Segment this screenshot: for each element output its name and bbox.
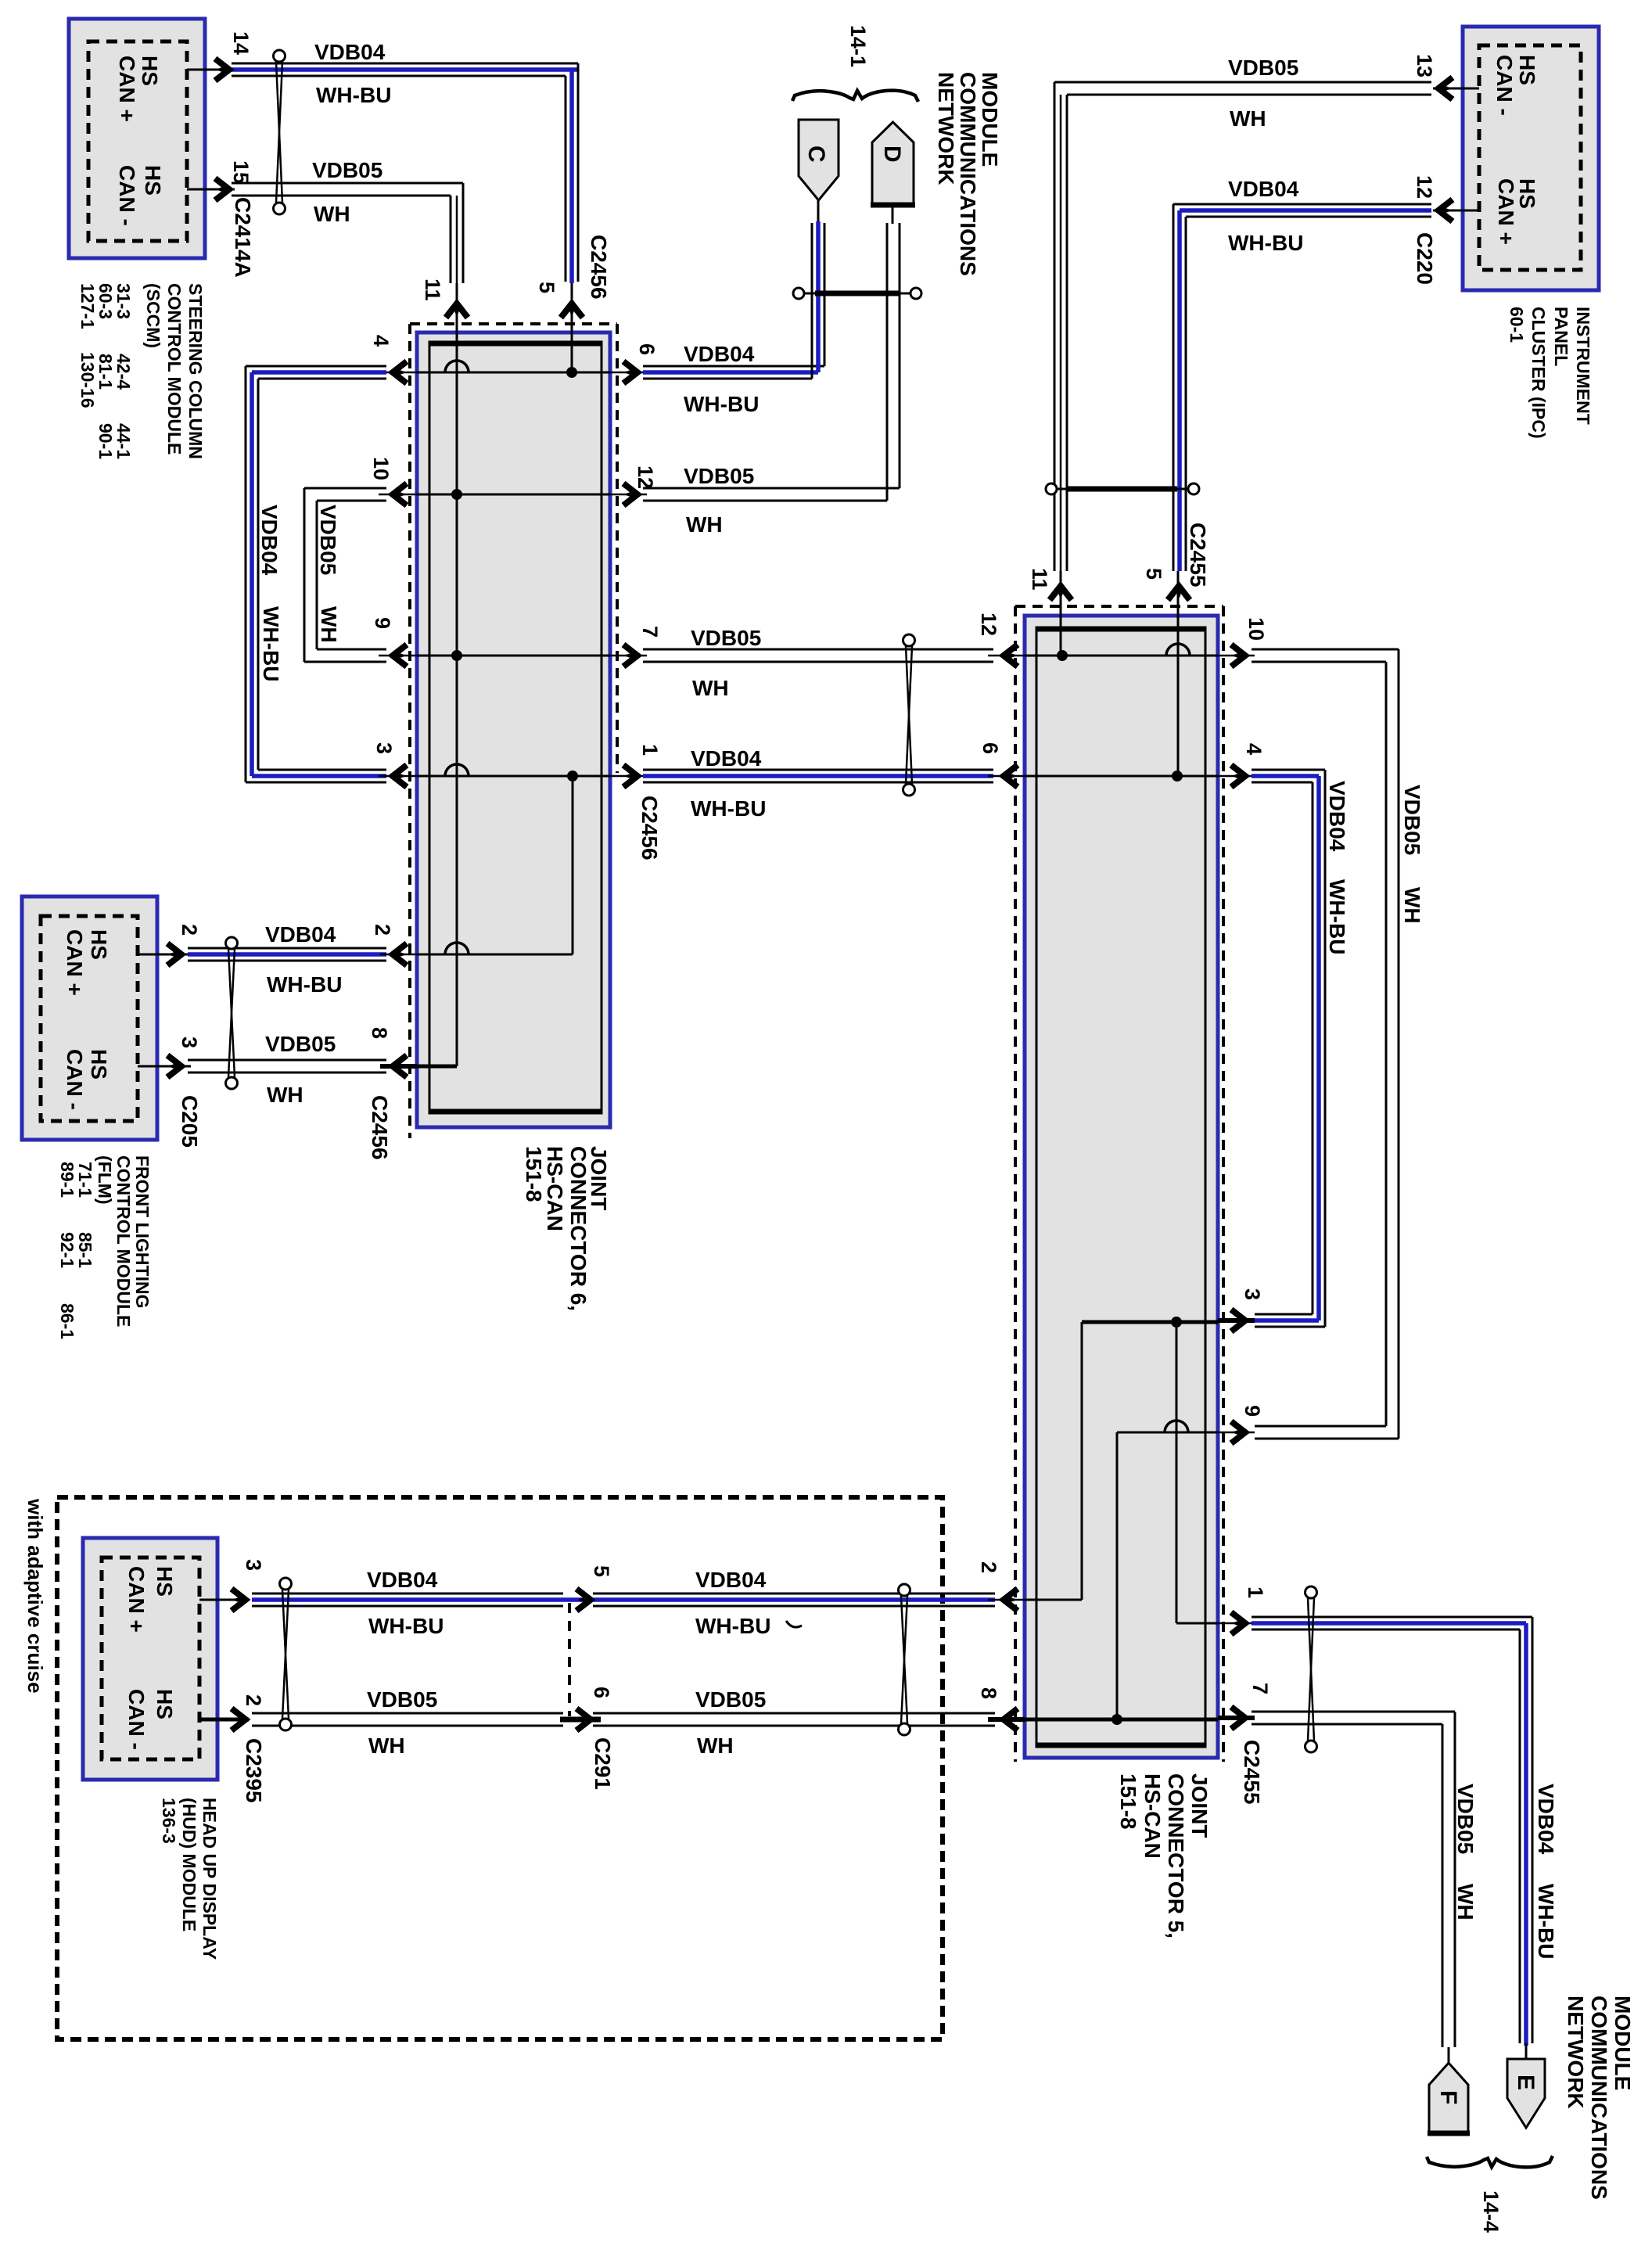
svg-text:127-1: 127-1 xyxy=(77,283,98,329)
svg-text:HS: HS xyxy=(87,929,111,960)
svg-text:(FLM): (FLM) xyxy=(95,1155,115,1205)
svg-text:C2456: C2456 xyxy=(587,235,611,300)
svg-text:3: 3 xyxy=(372,742,396,754)
svg-text:WH: WH xyxy=(697,1734,734,1758)
svg-text:JOINT: JOINT xyxy=(1187,1773,1212,1838)
svg-text:14-4: 14-4 xyxy=(1479,2190,1503,2233)
svg-text:15: 15 xyxy=(229,160,253,184)
svg-text:86-1: 86-1 xyxy=(57,1303,77,1339)
svg-text:VDB05: VDB05 xyxy=(691,626,761,650)
svg-text:3: 3 xyxy=(1241,1288,1264,1300)
svg-text:WH: WH xyxy=(368,1734,405,1758)
svg-text:VDB05: VDB05 xyxy=(367,1687,437,1712)
svg-text:WH: WH xyxy=(692,676,729,700)
svg-text:(HUD) MODULE: (HUD) MODULE xyxy=(179,1798,199,1931)
svg-text:VDB04: VDB04 xyxy=(265,922,336,947)
svg-text:HS: HS xyxy=(141,165,165,196)
svg-text:VDB05: VDB05 xyxy=(316,505,340,575)
svg-text:HEAD UP DISPLAY: HEAD UP DISPLAY xyxy=(199,1798,220,1960)
svg-text:D: D xyxy=(879,146,905,163)
svg-text:VDB05: VDB05 xyxy=(312,158,382,182)
svg-text:MODULE: MODULE xyxy=(1611,1996,1635,2090)
svg-text:4: 4 xyxy=(1242,743,1266,755)
svg-text:1: 1 xyxy=(638,744,662,756)
svg-text:INSTRUMENT: INSTRUMENT xyxy=(1573,307,1593,425)
svg-text:9: 9 xyxy=(1241,1405,1264,1417)
svg-text:6: 6 xyxy=(635,343,659,355)
svg-text:VDB04: VDB04 xyxy=(1228,177,1299,201)
svg-text:10: 10 xyxy=(1244,617,1268,641)
svg-text:8: 8 xyxy=(977,1687,1000,1699)
svg-text:VDB04: VDB04 xyxy=(684,342,755,366)
svg-text:6: 6 xyxy=(590,1687,613,1698)
svg-text:C2395: C2395 xyxy=(242,1738,266,1803)
svg-text:11: 11 xyxy=(1028,568,1051,591)
svg-text:VDB04: VDB04 xyxy=(257,505,282,576)
svg-text:136-3: 136-3 xyxy=(159,1798,179,1844)
svg-text:60-1: 60-1 xyxy=(1507,307,1527,343)
svg-text:14-1: 14-1 xyxy=(846,25,870,67)
svg-text:FRONT LIGHTING: FRONT LIGHTING xyxy=(132,1155,153,1308)
svg-text:HS: HS xyxy=(153,1689,177,1719)
svg-text:C: C xyxy=(803,146,829,163)
svg-text:WH: WH xyxy=(1400,887,1424,924)
svg-text:9: 9 xyxy=(371,617,394,629)
svg-text:5: 5 xyxy=(590,1565,613,1577)
svg-text:12: 12 xyxy=(634,465,657,489)
svg-text:HS: HS xyxy=(1515,55,1539,85)
svg-text:7: 7 xyxy=(1248,1683,1272,1694)
svg-text:COMMUNICATIONS: COMMUNICATIONS xyxy=(956,72,980,276)
svg-text:CAN -: CAN - xyxy=(1492,55,1517,116)
svg-text:CAN +: CAN + xyxy=(63,929,87,996)
svg-text:C2456: C2456 xyxy=(368,1095,392,1160)
svg-text:HS: HS xyxy=(138,56,162,86)
svg-text:VDB05: VDB05 xyxy=(695,1687,766,1712)
svg-text:92-1: 92-1 xyxy=(57,1232,77,1268)
svg-text:12: 12 xyxy=(1413,175,1436,199)
svg-text:WH-BU: WH-BU xyxy=(1534,1884,1558,1959)
svg-text:14: 14 xyxy=(229,31,253,55)
svg-text:10: 10 xyxy=(369,457,393,480)
svg-text:HS: HS xyxy=(153,1566,177,1597)
svg-text:VDB04: VDB04 xyxy=(1325,781,1349,852)
svg-text:WH: WH xyxy=(686,512,723,537)
svg-text:7: 7 xyxy=(638,626,662,638)
svg-text:C205: C205 xyxy=(178,1095,202,1148)
svg-text:NETWORK: NETWORK xyxy=(1564,1996,1588,2109)
svg-text:CONTROL MODULE: CONTROL MODULE xyxy=(164,283,185,455)
svg-text:5: 5 xyxy=(1142,568,1165,580)
svg-text:WH: WH xyxy=(1453,1884,1478,1920)
svg-text:HS-CAN: HS-CAN xyxy=(1140,1773,1165,1859)
svg-text:90-1: 90-1 xyxy=(95,423,116,459)
svg-text:WH-BU: WH-BU xyxy=(267,972,342,997)
svg-text:PANEL: PANEL xyxy=(1551,307,1571,366)
svg-text:WH-BU: WH-BU xyxy=(368,1614,444,1638)
svg-text:WH: WH xyxy=(267,1083,303,1107)
svg-text:12: 12 xyxy=(977,613,1000,636)
svg-text:2: 2 xyxy=(977,1561,1000,1573)
svg-text:MODULE: MODULE xyxy=(978,72,1002,167)
svg-text:11: 11 xyxy=(421,278,444,301)
svg-text:2: 2 xyxy=(178,924,201,936)
svg-text:CAN -: CAN - xyxy=(115,165,139,226)
svg-text:3: 3 xyxy=(242,1559,265,1571)
svg-text:VDB04: VDB04 xyxy=(695,1568,767,1592)
svg-text:1: 1 xyxy=(1244,1586,1267,1598)
svg-text:HS: HS xyxy=(1515,178,1539,209)
svg-text:COMMUNICATIONS: COMMUNICATIONS xyxy=(1587,1996,1611,2200)
svg-text:WH: WH xyxy=(1230,106,1266,131)
svg-text:5: 5 xyxy=(535,282,558,293)
svg-text:WH-BU: WH-BU xyxy=(695,1614,770,1638)
svg-text:C220: C220 xyxy=(1413,232,1437,285)
svg-text:151-8: 151-8 xyxy=(1116,1773,1140,1830)
svg-text:3: 3 xyxy=(178,1037,201,1048)
svg-text:2: 2 xyxy=(242,1694,265,1706)
svg-text:4: 4 xyxy=(369,335,393,347)
svg-text:VDB05: VDB05 xyxy=(1228,56,1298,80)
svg-text:HS: HS xyxy=(87,1049,111,1080)
svg-text:NETWORK: NETWORK xyxy=(934,72,958,185)
svg-text:WH-BU: WH-BU xyxy=(1228,231,1303,255)
svg-text:CAN +: CAN + xyxy=(124,1566,149,1633)
svg-text:C291: C291 xyxy=(591,1737,615,1790)
svg-text:VDB05: VDB05 xyxy=(1400,785,1424,855)
svg-text:STEERING COLUMN: STEERING COLUMN xyxy=(185,283,206,459)
svg-text:CAN +: CAN + xyxy=(1494,178,1518,245)
svg-text:CAN +: CAN + xyxy=(115,56,139,122)
svg-text:VDB05: VDB05 xyxy=(1453,1784,1478,1854)
svg-text:C2414A: C2414A xyxy=(231,197,255,278)
svg-text:CONNECTOR 5,: CONNECTOR 5, xyxy=(1164,1773,1188,1938)
svg-text:VDB05: VDB05 xyxy=(684,464,754,488)
svg-text:VDB04: VDB04 xyxy=(1534,1784,1558,1855)
svg-text:VDB04: VDB04 xyxy=(314,40,386,64)
svg-text:WH-BU: WH-BU xyxy=(259,606,283,681)
svg-text:8: 8 xyxy=(368,1027,391,1039)
svg-text:WH-BU: WH-BU xyxy=(1325,879,1349,954)
svg-text:F: F xyxy=(1435,2090,1461,2104)
svg-text:130-16: 130-16 xyxy=(77,352,98,408)
svg-text:WH-BU: WH-BU xyxy=(684,392,759,416)
svg-text:CAN -: CAN - xyxy=(63,1049,87,1110)
svg-text:151-8: 151-8 xyxy=(522,1146,546,1202)
svg-text:WH: WH xyxy=(314,202,350,226)
svg-text:C2455: C2455 xyxy=(1186,523,1210,587)
svg-text:CONNECTOR 6,: CONNECTOR 6, xyxy=(566,1146,591,1311)
svg-text:E: E xyxy=(1513,2075,1539,2090)
svg-text:VDB04: VDB04 xyxy=(691,746,762,771)
svg-text:89-1: 89-1 xyxy=(57,1162,77,1198)
svg-text:VDB05: VDB05 xyxy=(265,1032,336,1056)
svg-text:6: 6 xyxy=(979,742,1002,754)
svg-text:CLUSTER (IPC): CLUSTER (IPC) xyxy=(1528,307,1549,439)
svg-text:with adaptive cruise: with adaptive cruise xyxy=(23,1498,47,1694)
svg-text:CAN -: CAN - xyxy=(124,1689,149,1750)
svg-text:WH: WH xyxy=(317,606,341,643)
svg-text:C2456: C2456 xyxy=(637,796,662,861)
svg-text:WH-BU: WH-BU xyxy=(316,83,391,107)
svg-text:(SCCM): (SCCM) xyxy=(143,283,163,348)
svg-text:VDB04: VDB04 xyxy=(367,1568,438,1592)
svg-text:13: 13 xyxy=(1413,54,1436,77)
svg-text:CONTROL MODULE: CONTROL MODULE xyxy=(113,1155,134,1327)
svg-text:C2455: C2455 xyxy=(1240,1740,1264,1805)
svg-text:WH-BU: WH-BU xyxy=(691,796,766,821)
svg-text:2: 2 xyxy=(371,924,394,936)
